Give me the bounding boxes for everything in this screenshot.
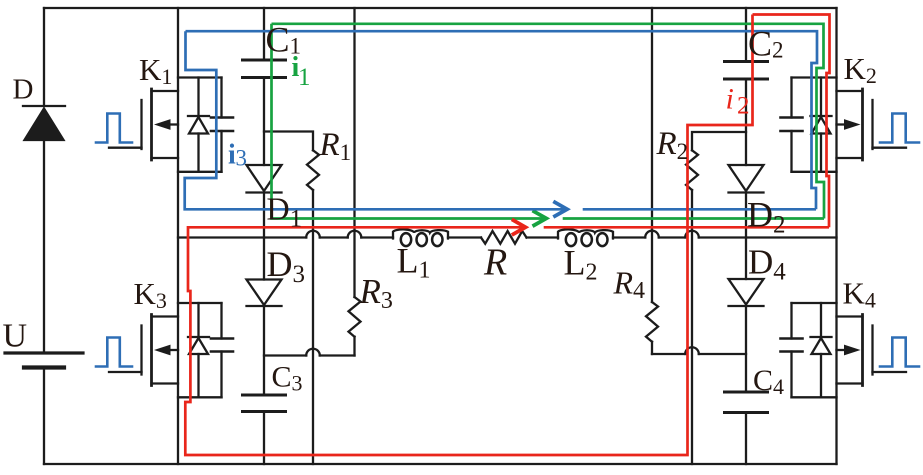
label R3: [359, 272, 393, 314]
label R: [483, 242, 507, 284]
label C1: [266, 20, 302, 60]
resistor R3: [349, 297, 361, 356]
svg-text:C4: C4: [753, 364, 784, 399]
label C4: [753, 364, 784, 399]
wire stub R4-D4 with hop over R2 line: [652, 347, 746, 354]
label i1: [292, 52, 311, 91]
gate pulse K1: [96, 114, 132, 143]
resistor R1: [264, 132, 319, 465]
label R2: [656, 126, 689, 164]
resistor R4: [646, 302, 658, 354]
wire left rail upper (through diode D): [43, 8, 45, 352]
wire right bridge leg: [835, 8, 837, 464]
label D: [13, 74, 34, 106]
current loop i1 (green): [272, 24, 825, 226]
wire stub D3-R3 with hop over R1 line: [264, 349, 355, 356]
svg-text:3: 3: [236, 146, 248, 171]
svg-text:L2: L2: [564, 243, 598, 286]
gate pulse K2: [880, 114, 919, 143]
label U: [3, 318, 28, 355]
battery U: [5, 353, 83, 368]
wire top rail: [44, 7, 837, 9]
inductor L1: [393, 229, 448, 246]
transistor K3: [109, 315, 178, 386]
svg-text:C2: C2: [748, 24, 784, 64]
current loop i3 (blue): [185, 31, 817, 217]
svg-text:L1: L1: [397, 241, 431, 284]
diode D: [23, 106, 65, 140]
label C2: [748, 24, 784, 64]
body diode K4: [811, 303, 832, 397]
wire left bridge leg: [177, 8, 179, 464]
snubber box K1: [178, 78, 233, 172]
body diode K2: [811, 78, 832, 172]
label D4: [748, 243, 786, 286]
svg-text:R2: R2: [656, 126, 689, 164]
diode D4: [729, 238, 764, 307]
svg-text:R: R: [483, 242, 507, 284]
body diode K3: [188, 303, 209, 397]
svg-text:R3: R3: [359, 272, 393, 314]
label K2: [844, 51, 877, 88]
snubber box K2: [781, 78, 837, 172]
svg-text:R4: R4: [613, 265, 646, 305]
svg-text:R1: R1: [319, 127, 352, 165]
body diode K1: [188, 78, 209, 172]
svg-text:D4: D4: [748, 243, 786, 286]
diode D3: [247, 238, 282, 307]
svg-text:K4: K4: [843, 276, 876, 313]
label i3: [228, 140, 247, 171]
label L2: [564, 243, 598, 286]
transistor K4: [837, 315, 907, 386]
inductor L2: [558, 229, 613, 246]
resistor R: [481, 231, 527, 244]
svg-text:D2: D2: [747, 195, 786, 239]
diode D2: [729, 165, 764, 238]
svg-text:1: 1: [298, 64, 311, 91]
svg-text:D3: D3: [267, 244, 306, 288]
label L1: [397, 241, 431, 284]
label R4: [613, 265, 646, 305]
label D3: [267, 244, 306, 288]
label R1: [319, 127, 352, 165]
label K3: [134, 276, 167, 313]
capacitor C4: [725, 306, 768, 464]
transistor K1: [109, 89, 178, 160]
svg-text:D1: D1: [267, 191, 303, 233]
resistor R2: [686, 132, 746, 464]
svg-text:K1: K1: [139, 52, 172, 89]
label i2: [726, 83, 750, 120]
svg-text:K2: K2: [844, 51, 877, 88]
wire top-to-R3: [353, 8, 355, 297]
svg-text:D: D: [13, 74, 34, 106]
wire mid rail: [178, 231, 837, 238]
label D2: [747, 195, 786, 239]
capacitor C2: [725, 8, 768, 165]
capacitor C1: [243, 8, 286, 165]
svg-text:K3: K3: [134, 276, 167, 313]
snubber box K3: [178, 303, 233, 397]
diode D1: [247, 165, 282, 238]
capacitor C3: [243, 306, 286, 464]
label C3: [272, 361, 303, 396]
gate pulse K4: [880, 338, 919, 367]
wire bottom rail: [44, 463, 837, 465]
svg-text:U: U: [3, 318, 28, 355]
current loop i2 (red): [185, 15, 829, 456]
gate pulse K3: [96, 338, 132, 367]
svg-text:i: i: [726, 83, 734, 116]
wire top-to-R4: [651, 8, 653, 302]
svg-text:2: 2: [737, 93, 750, 120]
label D1: [267, 191, 303, 233]
label K4: [843, 276, 876, 313]
transistor K2: [837, 89, 907, 160]
wire left rail lower (below battery U): [43, 368, 45, 464]
svg-text:C3: C3: [272, 361, 303, 396]
snubber box K4: [781, 303, 837, 397]
label K1: [139, 52, 172, 89]
